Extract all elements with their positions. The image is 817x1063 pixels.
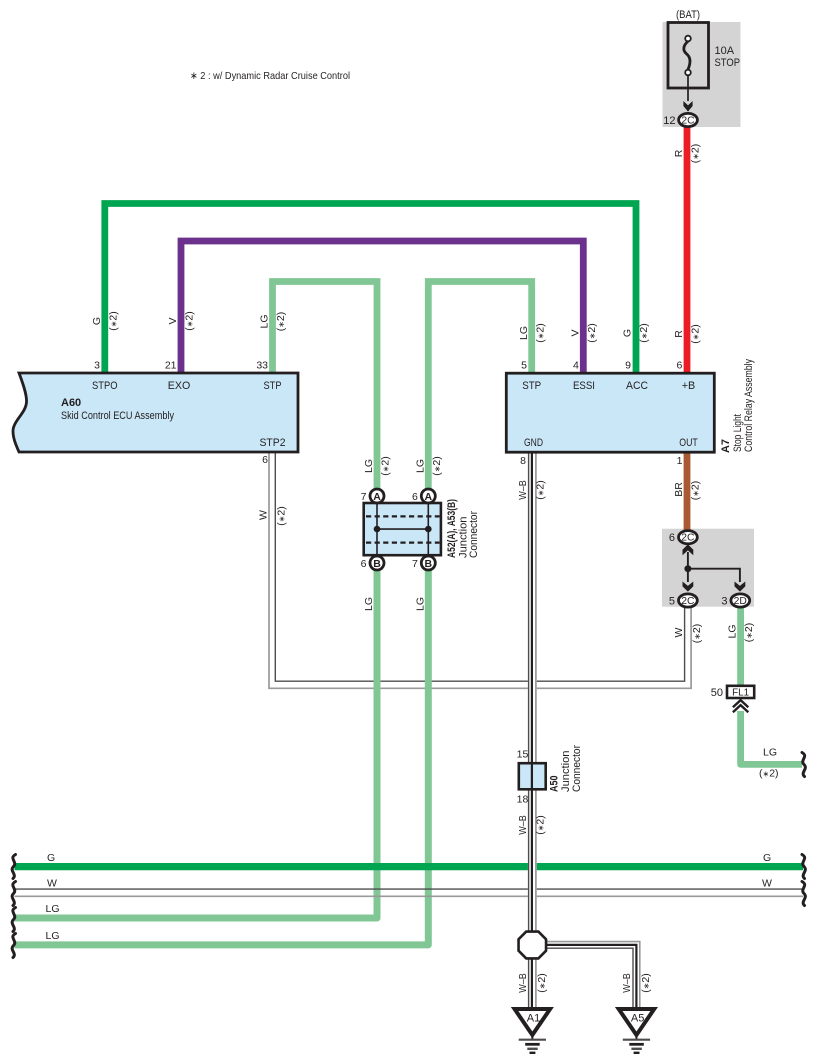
wire W-B GND to octagon (529, 453, 536, 933)
arrow up (683, 544, 694, 555)
wire BR OUT to 2C-6 (684, 452, 691, 530)
svg-text:6: 6 (412, 491, 418, 503)
wire W-B octagon to A5 (546, 942, 640, 1009)
continuation squiggles right (802, 753, 805, 906)
ground A5 (619, 1009, 655, 1053)
svg-text:(∗2): (∗2) (743, 623, 755, 643)
relay connector internals (669, 531, 750, 608)
svg-text:(∗2): (∗2) (108, 311, 120, 331)
svg-text:OUT: OUT (679, 437, 698, 449)
svg-text:(∗2): (∗2) (690, 481, 702, 501)
wire LG 2D to FL1 (737, 606, 744, 686)
svg-text:G: G (47, 852, 55, 864)
svg-text:STPO: STPO (92, 380, 118, 392)
svg-text:LG: LG (763, 747, 777, 759)
svg-text:ACC: ACC (626, 380, 648, 392)
svg-text:50: 50 (711, 687, 723, 699)
svg-text:G: G (622, 329, 634, 337)
continuation squiggles left (12, 855, 15, 958)
svg-text:W: W (258, 510, 270, 520)
svg-text:15: 15 (517, 749, 529, 761)
bus W line 2 (15, 895, 804, 897)
svg-text:A52(A), A53(B): A52(A), A53(B) (446, 499, 458, 558)
svg-text:18: 18 (517, 794, 529, 806)
svg-text:(BAT): (BAT) (676, 9, 700, 21)
wire W STP2 to 2C-5 (269, 452, 691, 688)
component A7 Stop Light Control Relay Assembly (506, 359, 755, 453)
svg-text:V: V (570, 329, 582, 336)
svg-text:(∗2): (∗2) (586, 323, 598, 343)
svg-text:A50: A50 (549, 776, 561, 793)
svg-text:(∗2): (∗2) (536, 973, 548, 993)
svg-text:2C: 2C (681, 596, 694, 607)
svg-text:W–B: W–B (517, 480, 529, 500)
svg-text:A5: A5 (631, 1013, 644, 1025)
wire G STPO to ACC (105, 204, 636, 374)
svg-text:6: 6 (676, 360, 682, 372)
svg-text:(∗2): (∗2) (380, 456, 392, 476)
svg-text:(∗2): (∗2) (534, 323, 546, 343)
svg-text:7: 7 (412, 558, 418, 570)
bus G (15, 863, 804, 870)
svg-text:(∗2): (∗2) (535, 480, 547, 500)
svg-text:2D: 2D (734, 596, 747, 607)
svg-text:7: 7 (361, 491, 367, 503)
svg-text:Connector: Connector (571, 745, 583, 792)
svg-text:6: 6 (361, 558, 367, 570)
junction dot (684, 565, 691, 572)
connector 6 2C (679, 531, 698, 544)
svg-text:6: 6 (669, 532, 675, 544)
wire V EXO to ESSI (181, 241, 583, 373)
octagon junction (519, 932, 547, 959)
svg-text:LG: LG (727, 624, 739, 638)
svg-text:LG: LG (518, 326, 530, 340)
svg-text:W: W (762, 878, 772, 890)
connector 5 2C (679, 594, 698, 607)
svg-text:LG: LG (415, 459, 427, 473)
svg-text:STP: STP (522, 380, 541, 392)
wire LG FL1 to right (741, 711, 802, 764)
svg-text:A60: A60 (61, 397, 81, 409)
svg-text:2C: 2C (681, 116, 694, 127)
svg-text:1: 1 (677, 455, 683, 467)
svg-text:LG: LG (259, 314, 271, 328)
svg-text:2C: 2C (681, 533, 694, 544)
svg-text:BR: BR (673, 482, 685, 497)
rotated wire labels (91, 144, 755, 993)
svg-text:4: 4 (573, 360, 579, 372)
svg-text:5: 5 (669, 595, 675, 607)
svg-text:V: V (167, 317, 179, 324)
svg-text:33: 33 (256, 360, 268, 372)
svg-text:(∗2): (∗2) (431, 456, 443, 476)
fusible link FL1 (711, 686, 754, 713)
wire W-B octagon to A1 (529, 958, 536, 1010)
svg-text:A7: A7 (720, 439, 732, 453)
pin B circles (370, 556, 384, 570)
svg-text:STP: STP (264, 380, 282, 392)
svg-text:10A: 10A (715, 45, 735, 57)
svg-text:W–B: W–B (621, 973, 633, 993)
svg-text:LG: LG (415, 597, 427, 611)
svg-text:B: B (425, 558, 433, 570)
svg-text:Connector: Connector (468, 511, 480, 558)
svg-text:W: W (47, 878, 57, 890)
svg-text:G: G (91, 317, 103, 325)
svg-text:∗ 2 : w/ Dynamic Radar Cruise: ∗ 2 : w/ Dynamic Radar Cruise Control (190, 70, 350, 82)
chevron (733, 700, 748, 712)
junction connector A52(A) A53(B) (361, 489, 480, 570)
bus W line 1 (15, 888, 804, 890)
arrow down right (735, 582, 746, 592)
svg-text:B: B (373, 558, 381, 570)
svg-text:+B: +B (682, 380, 696, 392)
svg-text:A1: A1 (527, 1013, 540, 1025)
svg-text:(∗2): (∗2) (638, 323, 650, 343)
svg-text:(∗2): (∗2) (759, 768, 779, 780)
svg-text:12: 12 (663, 115, 675, 127)
svg-text:5: 5 (521, 360, 527, 372)
relay connector shading (662, 529, 754, 607)
fuse 10A STOP (668, 9, 740, 112)
svg-text:LG: LG (363, 597, 375, 611)
svg-text:A: A (425, 491, 433, 503)
svg-text:(∗2): (∗2) (535, 815, 547, 835)
svg-text:LG: LG (46, 930, 60, 942)
svg-text:R: R (673, 330, 685, 338)
wire R fuse to +B (684, 126, 691, 373)
svg-text:GND: GND (524, 437, 543, 449)
svg-text:A: A (373, 491, 381, 503)
svg-text:(∗2): (∗2) (690, 324, 702, 344)
junction connector A50 (517, 745, 583, 806)
connector 3 2D (731, 594, 750, 607)
svg-text:3: 3 (721, 595, 727, 607)
connector 12 2C (663, 113, 697, 127)
svg-text:(∗2): (∗2) (690, 144, 702, 164)
svg-text:9: 9 (625, 360, 631, 372)
pin A circles (370, 489, 384, 503)
wire LG A60-STP to junction A (273, 282, 378, 490)
svg-text:(∗2): (∗2) (276, 506, 288, 526)
svg-text:FL1: FL1 (732, 687, 749, 699)
branch wire (688, 569, 740, 582)
svg-text:(∗2): (∗2) (275, 312, 287, 332)
svg-text:ESSI: ESSI (573, 380, 595, 392)
svg-text:STOP: STOP (715, 57, 741, 69)
svg-text:6: 6 (262, 454, 268, 466)
svg-text:21: 21 (165, 360, 177, 372)
arrow down left (683, 582, 694, 592)
svg-text:W–B: W–B (517, 973, 529, 993)
svg-text:Control Relay Assembly: Control Relay Assembly (743, 359, 755, 452)
wire LG junction B to bus (15, 570, 378, 918)
wire LG A7-STP to junction A (428, 282, 531, 490)
svg-text:LG: LG (363, 459, 375, 473)
svg-text:(∗2): (∗2) (184, 311, 196, 331)
svg-text:(∗2): (∗2) (691, 624, 703, 644)
wire LG junction B to bus 2 (15, 570, 429, 945)
ground A1 (515, 1009, 551, 1053)
svg-text:(∗2): (∗2) (640, 973, 652, 993)
svg-text:W–B: W–B (517, 815, 529, 835)
svg-text:3: 3 (94, 360, 100, 372)
svg-text:G: G (763, 852, 771, 864)
svg-text:8: 8 (520, 455, 526, 467)
svg-text:W: W (673, 627, 685, 637)
component A60 Skid Control ECU Assembly (13, 373, 298, 452)
svg-text:Skid Control ECU Assembly: Skid Control ECU Assembly (61, 410, 174, 422)
svg-text:R: R (673, 149, 685, 157)
svg-text:EXO: EXO (168, 380, 191, 392)
fuse block shading (663, 22, 741, 127)
svg-text:STP2: STP2 (260, 437, 286, 449)
svg-text:LG: LG (46, 903, 60, 915)
